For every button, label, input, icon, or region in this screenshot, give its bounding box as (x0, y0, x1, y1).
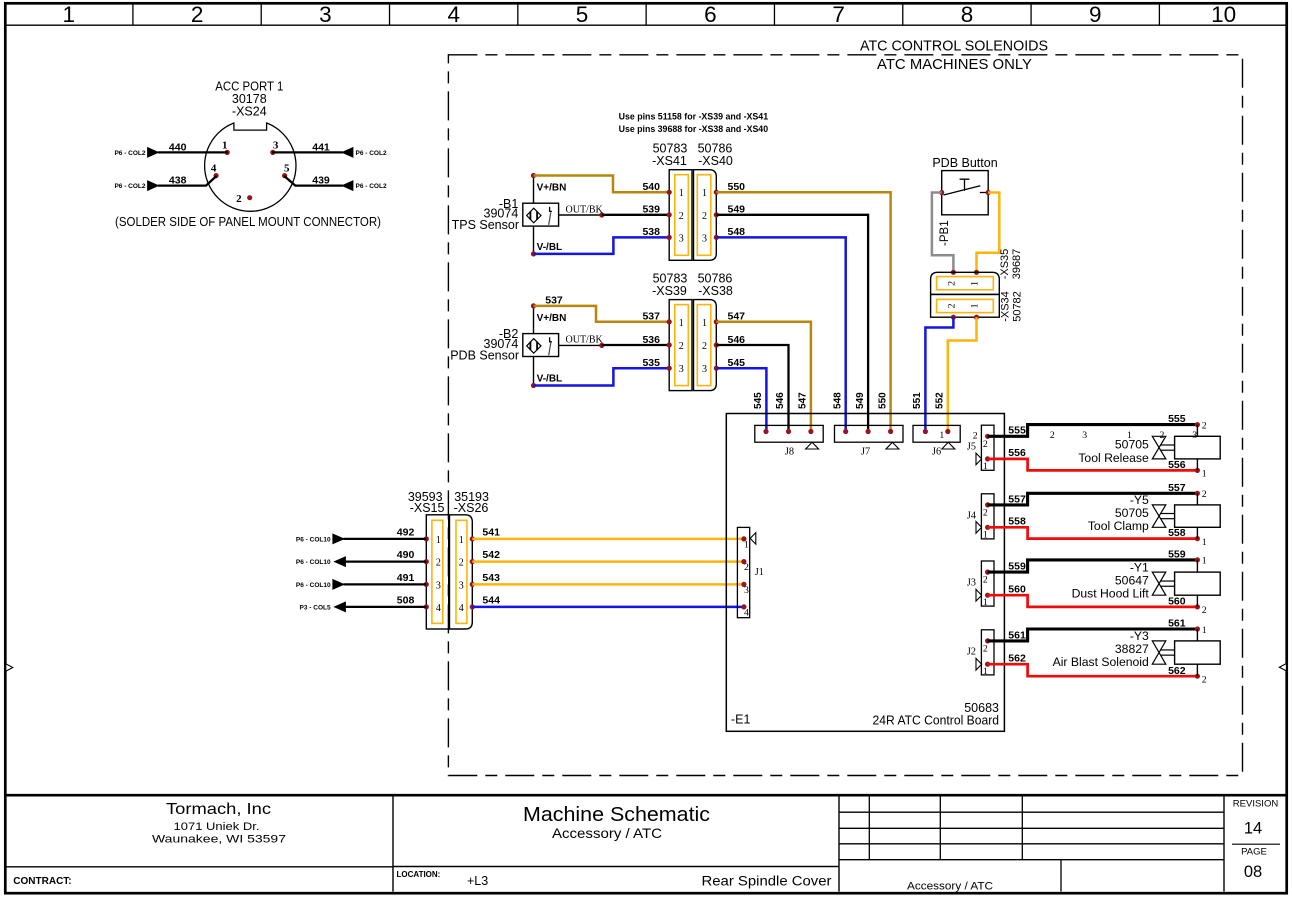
svg-text:Dust Hood Lift: Dust Hood Lift (1072, 586, 1150, 600)
svg-text:24R ATC Control Board: 24R ATC Control Board (873, 713, 1000, 727)
svg-text:Tormach, Inc: Tormach, Inc (166, 801, 271, 818)
svg-text:2: 2 (744, 562, 749, 573)
svg-text:441: 441 (312, 142, 330, 154)
svg-text:(SOLDER SIDE OF PANEL MOUNT CO: (SOLDER SIDE OF PANEL MOUNT CONNECTOR) (115, 214, 381, 229)
svg-text:1: 1 (679, 318, 684, 329)
-B2 V- wire to row3 (534, 368, 670, 385)
svg-text:3: 3 (744, 585, 749, 596)
connector -XS24 ACC PORT 1 label (215, 80, 283, 119)
connector -XS26 35193 (450, 490, 490, 629)
connector -XS34 50782 (931, 291, 1024, 322)
wire 555 J5 top black (988, 413, 1207, 437)
solenoid valve -Y5 (1088, 493, 1220, 538)
wire 549 (716, 215, 868, 432)
svg-text:557: 557 (1008, 493, 1026, 505)
svg-text:P6 - COL10: P6 - COL10 (296, 559, 331, 566)
svg-text:3: 3 (436, 580, 441, 591)
svg-text:561: 561 (1168, 618, 1186, 630)
wire 508 (300, 595, 427, 612)
svg-text:ATC MACHINES ONLY: ATC MACHINES ONLY (877, 56, 1032, 73)
svg-text:J8: J8 (785, 446, 794, 457)
company block (13, 801, 286, 887)
svg-text:2: 2 (702, 341, 707, 352)
svg-text:1: 1 (939, 430, 944, 441)
svg-text:50647: 50647 (1115, 573, 1149, 587)
svg-text:1: 1 (983, 597, 988, 608)
svg-text:562: 562 (1168, 665, 1186, 677)
svg-text:2: 2 (191, 2, 204, 27)
wire 542 (472, 549, 744, 561)
drawing title block (397, 803, 994, 893)
svg-text:539: 539 (642, 204, 660, 216)
-B1 OUT lead (559, 204, 605, 217)
header J7 (835, 425, 904, 457)
wire 552 (948, 317, 977, 431)
svg-text:5: 5 (284, 162, 290, 174)
svg-text:1071 Uniek Dr.: 1071 Uniek Dr. (174, 821, 260, 833)
svg-text:1: 1 (436, 535, 441, 546)
svg-text:547: 547 (798, 392, 809, 409)
svg-text:-XS40: -XS40 (698, 154, 733, 168)
left fold mark (6, 664, 13, 671)
connector -XS38 50786 (694, 271, 733, 390)
svg-text:Waunakee, WI 53597: Waunakee, WI 53597 (152, 834, 286, 846)
svg-text:J6: J6 (932, 446, 941, 457)
connector -XS35 39687 (931, 249, 1023, 295)
svg-text:1: 1 (702, 188, 707, 199)
title block grid (4, 795, 1288, 891)
svg-text:-E1: -E1 (731, 713, 751, 727)
wire 441 (272, 142, 387, 158)
valve port numbers (973, 430, 1197, 442)
svg-text:P6 - COL10: P6 - COL10 (296, 536, 331, 543)
connector -XS41 50783 (652, 142, 692, 261)
pin 5 of -XS24 (282, 162, 290, 178)
-B2 V+ wire to row1 (534, 306, 670, 322)
svg-text:1: 1 (1202, 537, 1207, 548)
svg-text:490: 490 (397, 549, 415, 561)
svg-text:-XS15: -XS15 (410, 501, 445, 515)
connector -XS39 50783 (652, 271, 692, 390)
svg-text:-PB1: -PB1 (939, 220, 951, 246)
svg-text:2: 2 (1202, 605, 1207, 616)
wire 545 (716, 368, 766, 431)
header J1 (737, 527, 763, 618)
svg-text:OUT/BK: OUT/BK (566, 335, 604, 346)
wire labels 545-552 rotated (753, 392, 945, 409)
sensor -B2 PDB Sensor (450, 327, 558, 362)
svg-text:558: 558 (1168, 527, 1186, 539)
svg-text:557: 557 (1168, 482, 1186, 494)
svg-text:Machine Schematic: Machine Schematic (523, 803, 710, 826)
svg-text:562: 562 (1008, 652, 1026, 664)
header J5 (967, 425, 994, 472)
svg-text:2: 2 (983, 575, 988, 586)
svg-text:-Y3: -Y3 (1130, 629, 1149, 643)
svg-text:-XS38: -XS38 (698, 284, 733, 298)
solenoid valve -Y1 (1072, 560, 1221, 607)
svg-text:555: 555 (1168, 413, 1186, 425)
wire 550 (716, 192, 890, 431)
svg-text:Use pins 39688 for -XS38 and -: Use pins 39688 for -XS38 and -XS40 (619, 124, 769, 135)
svg-text:4: 4 (211, 162, 217, 174)
svg-text:2: 2 (679, 341, 684, 352)
svg-text:1: 1 (969, 303, 980, 308)
wire 560 J3 bottom red (988, 583, 1207, 616)
svg-text:3: 3 (273, 140, 279, 152)
-B2 OUT wire to row2 (602, 344, 669, 346)
svg-text:550: 550 (877, 392, 888, 409)
-XS41 wire labels (642, 181, 745, 238)
svg-text:552: 552 (935, 392, 946, 409)
svg-text:-XS35: -XS35 (999, 249, 1011, 280)
svg-text:08: 08 (1244, 863, 1262, 881)
svg-text:J4: J4 (967, 510, 976, 521)
svg-text:50782: 50782 (1011, 291, 1023, 322)
svg-text:560: 560 (1008, 583, 1026, 595)
svg-text:V-/BL: V-/BL (537, 242, 563, 253)
svg-text:1: 1 (744, 539, 749, 550)
svg-text:ATC CONTROL SOLENOIDS: ATC CONTROL SOLENOIDS (860, 38, 1048, 55)
-B2 OUT lead (559, 335, 605, 348)
wire 562 J2 bottom red (988, 652, 1207, 685)
svg-text:39687: 39687 (1011, 249, 1023, 280)
svg-text:545: 545 (753, 392, 764, 409)
column ruler (4, 2, 1288, 27)
svg-text:536: 536 (642, 334, 660, 346)
svg-text:7: 7 (832, 2, 845, 27)
svg-text:P6 - COL2: P6 - COL2 (114, 150, 145, 157)
svg-text:3: 3 (679, 233, 684, 244)
svg-text:508: 508 (397, 595, 415, 607)
svg-text:TPS Sensor: TPS Sensor (452, 218, 519, 232)
svg-text:2: 2 (1202, 489, 1207, 500)
svg-text:544: 544 (482, 595, 500, 607)
svg-text:P3 - COL5: P3 - COL5 (300, 604, 331, 611)
svg-text:Tool Release: Tool Release (1078, 451, 1149, 465)
header J2 (967, 630, 994, 677)
svg-text:4: 4 (744, 607, 749, 618)
svg-text:1: 1 (1202, 625, 1207, 636)
svg-text:9: 9 (1089, 2, 1102, 27)
wire 492 (296, 527, 426, 544)
svg-text:2: 2 (1050, 430, 1055, 441)
svg-text:558: 558 (1008, 516, 1026, 528)
svg-text:Use pins 51158 for -XS39 and -: Use pins 51158 for -XS39 and -XS41 (619, 111, 769, 122)
svg-text:V+/BN: V+/BN (537, 313, 567, 324)
svg-text:J1: J1 (755, 567, 764, 578)
svg-text:2: 2 (1160, 430, 1165, 441)
svg-text:2: 2 (983, 507, 988, 518)
wire 543 (472, 572, 744, 584)
connector -XS15 39593 (408, 490, 449, 629)
pushbutton -PB1 PDB Button (932, 156, 997, 246)
svg-text:1: 1 (983, 666, 988, 677)
svg-text:559: 559 (1168, 549, 1186, 561)
svg-text:5: 5 (576, 2, 589, 27)
pin 2 of -XS24 (236, 193, 252, 205)
svg-text:2: 2 (236, 193, 242, 205)
svg-text:3: 3 (702, 233, 707, 244)
svg-text:556: 556 (1008, 447, 1026, 459)
-B2 V- lead (531, 357, 562, 389)
svg-text:2: 2 (1202, 675, 1207, 686)
wire 440 (114, 142, 228, 158)
XS15 XS26 pin numbers and dots (424, 535, 475, 614)
svg-text:4: 4 (447, 2, 460, 27)
use pins note (619, 111, 769, 135)
wire 438 (114, 175, 216, 191)
svg-text:548: 548 (832, 392, 843, 409)
svg-text:P6 - COL2: P6 - COL2 (356, 150, 387, 157)
svg-text:50705: 50705 (1115, 438, 1149, 452)
svg-text:8: 8 (961, 2, 974, 27)
svg-text:P6 - COL10: P6 - COL10 (296, 582, 331, 589)
svg-text:-XS34: -XS34 (999, 291, 1011, 322)
svg-text:-XS26: -XS26 (454, 501, 489, 515)
wire 491 (296, 572, 426, 589)
pin 1 of -XS24 (222, 140, 230, 155)
svg-text:LOCATION:: LOCATION: (397, 870, 441, 879)
svg-text:Air Blast Solenoid: Air Blast Solenoid (1053, 655, 1149, 669)
header J4 (967, 494, 994, 541)
svg-text:3: 3 (1082, 430, 1087, 441)
svg-text:1: 1 (459, 535, 464, 546)
svg-text:Accessory / ATC: Accessory / ATC (552, 825, 662, 841)
svg-text:1: 1 (983, 461, 988, 472)
-B1 V+ wire to row1 (534, 176, 670, 193)
header J8 (755, 425, 823, 457)
svg-text:561: 561 (1008, 629, 1026, 641)
svg-text:P6 - COL2: P6 - COL2 (114, 183, 145, 190)
svg-text:J2: J2 (967, 646, 976, 657)
header J3 (967, 561, 994, 608)
svg-text:1: 1 (63, 2, 76, 27)
svg-text:Rear Spindle Cover: Rear Spindle Cover (702, 874, 833, 889)
svg-text:V+/BN: V+/BN (537, 183, 567, 194)
svg-text:2: 2 (983, 439, 988, 450)
svg-text:J7: J7 (861, 446, 870, 457)
svg-text:-Y5: -Y5 (1130, 493, 1149, 507)
svg-text:Tool Clamp: Tool Clamp (1088, 519, 1149, 533)
svg-text:555: 555 (1008, 425, 1026, 437)
svg-text:3: 3 (702, 364, 707, 375)
svg-text:538: 538 (642, 226, 660, 238)
svg-text:1: 1 (702, 318, 707, 329)
wire PB1 to XS35 pin1 orange (974, 193, 999, 275)
svg-text:3: 3 (1192, 430, 1197, 441)
wire 556 J5 bottom red (988, 447, 1207, 480)
svg-text:P6 - COL2: P6 - COL2 (356, 183, 387, 190)
wire 548 (716, 237, 845, 431)
wire 544 (472, 595, 744, 607)
board -E1 24R ATC Control Board (726, 414, 1004, 732)
svg-text:3: 3 (679, 364, 684, 375)
wire 558 J4 bottom red (988, 516, 1207, 548)
svg-text:1: 1 (983, 529, 988, 540)
svg-text:+L3: +L3 (467, 874, 488, 888)
svg-text:440: 440 (169, 142, 187, 154)
svg-text:2: 2 (946, 281, 957, 286)
svg-text:Accessory / ATC: Accessory / ATC (907, 881, 993, 893)
svg-text:PAGE: PAGE (1241, 847, 1267, 858)
svg-text:541: 541 (482, 527, 500, 539)
svg-text:-Y1: -Y1 (1130, 560, 1149, 574)
svg-text:551: 551 (912, 392, 923, 409)
svg-text:1: 1 (969, 281, 980, 286)
svg-text:J3: J3 (967, 578, 976, 589)
revision page box (1232, 799, 1280, 882)
svg-text:50705: 50705 (1115, 506, 1149, 520)
svg-text:2: 2 (973, 431, 978, 442)
svg-text:14: 14 (1244, 820, 1262, 838)
wire 490 (296, 549, 426, 566)
-B1 V- lead (531, 226, 562, 256)
wire 439 (284, 175, 387, 191)
svg-text:542: 542 (482, 549, 500, 561)
svg-text:2: 2 (946, 303, 957, 308)
svg-text:CONTRACT:: CONTRACT: (13, 876, 71, 887)
-B1 V- wire to row3 (534, 237, 670, 254)
wire 551 (925, 317, 953, 431)
svg-text:2: 2 (436, 558, 441, 569)
svg-text:546: 546 (775, 392, 786, 409)
svg-text:-XS41: -XS41 (652, 154, 687, 168)
wire 559 J3 top black (988, 549, 1207, 573)
connector -XS40 50786 (694, 142, 733, 261)
svg-text:559: 559 (1008, 561, 1026, 573)
svg-text:3: 3 (459, 580, 464, 591)
connector -XS24 circle body (205, 117, 296, 212)
svg-text:10: 10 (1211, 2, 1236, 27)
svg-text:438: 438 (169, 175, 187, 187)
svg-text:J5: J5 (967, 442, 976, 453)
svg-text:560: 560 (1168, 596, 1186, 608)
wire 557 J4 top black (988, 482, 1207, 505)
pin 4 of -XS24 (211, 162, 219, 178)
svg-text:6: 6 (704, 2, 717, 27)
svg-text:-XS24: -XS24 (232, 105, 267, 119)
svg-text:PDB Sensor: PDB Sensor (450, 348, 519, 362)
svg-text:540: 540 (642, 181, 660, 193)
header J6 (913, 425, 960, 457)
svg-text:491: 491 (397, 572, 415, 584)
wire 546 (716, 345, 788, 432)
wire 547 (716, 322, 811, 432)
pin 3 of -XS24 (270, 140, 279, 155)
solenoid valve -Y3 (1053, 629, 1221, 676)
svg-text:1: 1 (222, 140, 228, 152)
svg-text:38827: 38827 (1115, 642, 1149, 656)
svg-text:1: 1 (1202, 556, 1207, 567)
svg-text:1: 1 (679, 188, 684, 199)
svg-text:-XS39: -XS39 (652, 284, 687, 298)
wire PB1 to XS35 pin2 gray (932, 193, 956, 275)
svg-text:492: 492 (397, 527, 415, 539)
svg-text:549: 549 (855, 392, 866, 409)
ATC dashed boundary box (448, 55, 1242, 776)
-B2 V+ lead (531, 303, 566, 333)
svg-text:2: 2 (679, 211, 684, 222)
svg-text:2: 2 (1202, 420, 1207, 431)
-B1 OUT wire to row2 (602, 214, 669, 216)
svg-text:REVISION: REVISION (1233, 799, 1279, 810)
ATC box titles (860, 38, 1048, 74)
svg-text:543: 543 (482, 572, 500, 584)
wire 541 (472, 527, 744, 539)
svg-text:439: 439 (312, 175, 330, 187)
svg-text:2: 2 (459, 558, 464, 569)
right fold mark (1279, 664, 1286, 671)
svg-text:2: 2 (983, 643, 988, 654)
svg-text:4: 4 (436, 603, 441, 614)
svg-text:1: 1 (1127, 430, 1132, 441)
svg-text:537: 537 (642, 311, 660, 323)
svg-text:OUT/BK: OUT/BK (566, 204, 604, 215)
-XS39 wire labels (642, 311, 745, 369)
svg-text:535: 535 (642, 357, 660, 369)
svg-text:PDB Button: PDB Button (932, 156, 997, 170)
svg-text:2: 2 (702, 211, 707, 222)
svg-text:4: 4 (459, 603, 464, 614)
svg-text:1: 1 (1202, 469, 1207, 480)
svg-text:3: 3 (319, 2, 332, 27)
svg-text:556: 556 (1168, 459, 1186, 471)
sensor -B1 TPS Sensor (452, 197, 559, 232)
-B1 V+ lead (531, 173, 566, 203)
solenoid valve 50705 (1078, 425, 1220, 471)
svg-text:V-/BL: V-/BL (537, 374, 563, 385)
wire 561 J2 top black (988, 618, 1207, 642)
